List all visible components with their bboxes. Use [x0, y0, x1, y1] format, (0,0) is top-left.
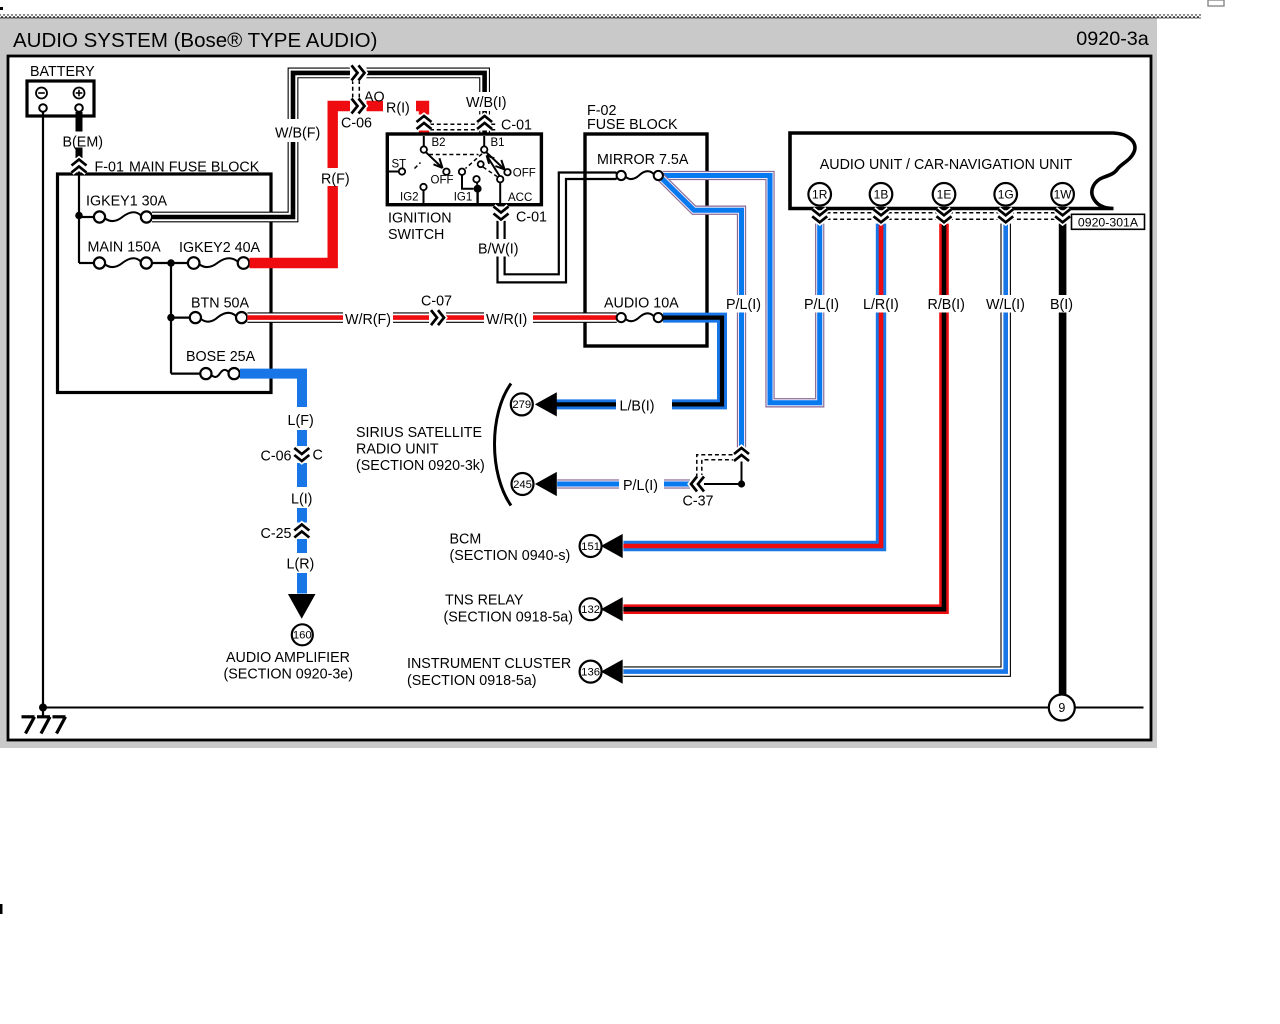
- dashed B1 to IG1: [466, 154, 483, 169]
- wire B from 1W to ground joint 9: [1059, 211, 1067, 695]
- wire P/L #1 MIRROR to 1R: [663, 176, 820, 403]
- svg-text:1W: 1W: [1054, 188, 1073, 202]
- wire W/L from 1G to instrument cluster: [623, 211, 1005, 672]
- audio unit pin circles: [808, 183, 831, 206]
- svg-text:MIRROR 7.5A: MIRROR 7.5A: [597, 152, 689, 168]
- svg-text:(SECTION 0920-3k): (SECTION 0920-3k): [356, 458, 485, 474]
- terminal IG2: [420, 184, 426, 190]
- svg-text:0920-3a: 0920-3a: [1076, 28, 1149, 50]
- svg-text:OFF: OFF: [513, 168, 536, 180]
- pin B1: [483, 136, 485, 146]
- arrow into 245: [535, 472, 557, 496]
- svg-text:BATTERY: BATTERY: [30, 64, 95, 80]
- tiny top-left dot: [0, 7, 3, 10]
- chevron C-37 up: [734, 448, 749, 461]
- arrow into 279: [535, 392, 557, 416]
- svg-text:W/R(F): W/R(F): [345, 312, 391, 328]
- chevron C-07: [431, 310, 444, 325]
- wire vertical to BOSE: [170, 318, 172, 374]
- wire label B(I): [1045, 295, 1080, 313]
- svg-text:(SECTION 0940-s): (SECTION 0940-s): [450, 548, 571, 564]
- svg-text:INSTRUMENT CLUSTER: INSTRUMENT CLUSTER: [407, 656, 571, 672]
- left-edge black tick: [0, 904, 3, 914]
- wire P/L #2 MIRROR to C-37: [661, 177, 742, 448]
- ground bus line: [43, 707, 1049, 709]
- sirius bracket: [495, 384, 512, 506]
- svg-text:W/R(I): W/R(I): [486, 312, 527, 328]
- node IG1: [474, 185, 482, 193]
- F-01 main fuse block box: [58, 174, 272, 393]
- node BTN: [167, 314, 175, 322]
- chevron C-06 on W/B: [352, 65, 365, 80]
- svg-text:1G: 1G: [998, 188, 1014, 202]
- ground symbol: [22, 717, 66, 734]
- svg-text:ACC: ACC: [508, 192, 532, 204]
- contact OFF right: [504, 169, 510, 175]
- audio unit / car-navigation unit box: [790, 133, 1135, 209]
- arrow into 132: [601, 597, 623, 621]
- wire label L(I): [286, 487, 319, 508]
- connector dashes audio unit 0920-301A: [820, 212, 1071, 214]
- dashed link B2-B1: [429, 154, 479, 156]
- svg-text:C-37: C-37: [683, 494, 714, 510]
- wire F-01 internal vertical: [78, 216, 80, 264]
- svg-text:BTN 50A: BTN 50A: [191, 296, 249, 312]
- svg-text:BCM: BCM: [450, 532, 482, 548]
- svg-text:IG2: IG2: [400, 192, 419, 204]
- ground node: [39, 704, 47, 712]
- wire label W/R(F): [343, 310, 393, 327]
- svg-text:C-06: C-06: [341, 116, 372, 132]
- wire label L(F): [283, 407, 320, 430]
- svg-text:IGKEY2 40A: IGKEY2 40A: [179, 240, 261, 256]
- ignition switch box: [387, 134, 541, 205]
- node at IGKEY1: [75, 212, 83, 220]
- audio amplifier arrow: [288, 594, 316, 619]
- svg-text:P/L(I): P/L(I): [623, 478, 658, 494]
- wire B/W(I) from ignition ACC to F-02 mirror fuse: [498, 177, 619, 283]
- F-02 fuse block box: [585, 134, 707, 346]
- wire label W/L(I): [980, 295, 1030, 313]
- lever ACC to B1 with arrow: [487, 155, 500, 176]
- svg-text:C-25: C-25: [261, 526, 292, 542]
- svg-text:9: 9: [1058, 701, 1065, 715]
- svg-text:B(I): B(I): [1050, 297, 1073, 313]
- svg-text:0920-301A: 0920-301A: [1078, 216, 1139, 230]
- svg-text:C-01: C-01: [501, 118, 532, 134]
- wire into F-01: [78, 171, 80, 216]
- svg-text:P/L(I): P/L(I): [726, 297, 761, 313]
- contact OFF left: [443, 169, 449, 175]
- svg-text:AO: AO: [364, 90, 385, 106]
- svg-text:(SECTION 0920-3e): (SECTION 0920-3e): [224, 667, 354, 683]
- svg-text:L(I): L(I): [291, 492, 312, 508]
- lever B1 to OFF right: [486, 152, 504, 169]
- svg-text:MAIN FUSE BLOCK: MAIN FUSE BLOCK: [129, 160, 260, 176]
- svg-text:160: 160: [293, 630, 312, 642]
- chevron C-25 on L: [294, 525, 309, 538]
- svg-text:132: 132: [581, 604, 600, 616]
- wire L from BOSE down to audio amplifier: [240, 374, 302, 594]
- svg-text:151: 151: [581, 541, 600, 553]
- svg-text:BOSE 25A: BOSE 25A: [186, 349, 256, 365]
- svg-text:279: 279: [512, 399, 531, 411]
- svg-text:B1: B1: [491, 137, 505, 149]
- svg-text:AUDIO 10A: AUDIO 10A: [604, 296, 679, 312]
- svg-text:OFF: OFF: [431, 175, 454, 187]
- wire L/R from 1B to BCM: [623, 211, 881, 546]
- wire label P/L(I) at 245: [619, 476, 664, 493]
- top zigzag rule: [0, 15, 1201, 19]
- arrow into 136: [601, 660, 623, 684]
- main diagram frame: [8, 56, 1151, 740]
- svg-text:TNS RELAY: TNS RELAY: [445, 593, 524, 609]
- gray sheet: [0, 17, 1157, 748]
- svg-text:AUDIO SYSTEM (Bose® TYPE AUDIO: AUDIO SYSTEM (Bose® TYPE AUDIO): [13, 29, 377, 52]
- wire label W/R(I): [484, 310, 533, 327]
- node MAIN/IGKEY2: [167, 259, 175, 267]
- chevron C-37 left: [691, 477, 704, 492]
- svg-text:ST: ST: [392, 159, 407, 171]
- svg-text:1B: 1B: [874, 188, 889, 202]
- wire label L/R(I): [855, 295, 906, 313]
- arrow into 151: [601, 534, 623, 558]
- svg-text:IGKEY1 30A: IGKEY1 30A: [86, 194, 168, 210]
- connector label 0920-301A: [1072, 214, 1145, 229]
- wire label R/B(I): [916, 295, 966, 313]
- svg-text:B/W(I): B/W(I): [478, 242, 519, 258]
- battery positive thick wire B(EM): [76, 112, 83, 132]
- pin B2: [423, 136, 425, 146]
- wire label R(F): [319, 168, 353, 186]
- svg-text:AUDIO UNIT / CAR-NAVIGATION UN: AUDIO UNIT / CAR-NAVIGATION UNIT: [820, 157, 1073, 173]
- svg-text:C: C: [313, 448, 323, 464]
- svg-text:AUDIO AMPLIFIER: AUDIO AMPLIFIER: [226, 650, 350, 666]
- connector 245: [512, 473, 534, 495]
- svg-text:R(I): R(I): [386, 101, 410, 117]
- svg-text:R(F): R(F): [321, 172, 350, 188]
- C-37 link lines: [704, 483, 738, 485]
- svg-text:IG1: IG1: [454, 192, 473, 204]
- contact above IG1 node: [473, 176, 479, 182]
- svg-text:W/B(F): W/B(F): [275, 126, 320, 142]
- chevron B(EM): [72, 160, 87, 173]
- svg-text:F-01: F-01: [95, 160, 124, 176]
- svg-text:(SECTION 0918-5a): (SECTION 0918-5a): [444, 610, 574, 626]
- switch lever B2 to OFF: [426, 152, 443, 168]
- svg-text:L/B(I): L/B(I): [620, 399, 655, 415]
- chevron C-01 on W/B: [477, 116, 492, 129]
- wire R from IGKEY2 up and over to ignition switch B2: [250, 106, 425, 263]
- svg-text:245: 245: [513, 479, 532, 491]
- wire vertical to BTN: [170, 263, 172, 318]
- svg-text:W/B(I): W/B(I): [466, 95, 507, 111]
- terminal ACC: [497, 176, 503, 182]
- connector 279: [511, 393, 533, 415]
- terminal ST: [389, 171, 399, 173]
- svg-text:MAIN 150A: MAIN 150A: [88, 240, 162, 256]
- connector dashes C-01: [430, 123, 497, 125]
- connector 160: [292, 624, 313, 645]
- svg-text:1R: 1R: [812, 188, 828, 202]
- svg-text:(SECTION 0918-5a): (SECTION 0918-5a): [407, 673, 537, 689]
- svg-text:L(R): L(R): [287, 557, 315, 573]
- wire label B/W(I): [477, 239, 521, 257]
- contact IG1 top: [459, 169, 465, 175]
- node C-37: [738, 480, 745, 487]
- wire label P/L(I) mid column: [724, 295, 765, 313]
- svg-text:136: 136: [581, 666, 600, 678]
- chevron gap rects: [72, 158, 86, 172]
- chevron C-06 on L: [294, 448, 309, 461]
- svg-text:SIRIUS SATELLITE: SIRIUS SATELLITE: [356, 425, 482, 441]
- wire label W/B(F): [270, 119, 322, 142]
- tiny top-right window mark: [1208, 0, 1224, 6]
- wire R/B from 1E to TNS relay: [623, 211, 944, 609]
- wire label L/B(I): [616, 396, 672, 413]
- svg-text:P/L(I): P/L(I): [804, 297, 839, 313]
- chevron C-01 on R: [417, 116, 432, 129]
- svg-text:L/R(I): L/R(I): [863, 297, 899, 313]
- svg-text:C-06: C-06: [261, 449, 292, 465]
- wire L/B from AUDIO fuse to SIRIUS 279: [557, 318, 723, 405]
- chevrons at audio unit pins: [812, 209, 827, 222]
- wire W/B(F) from IGKEY1 up and over to ignition switch: [152, 73, 485, 217]
- wire W/R from BTN to F-02: [247, 312, 616, 323]
- connector dashes C-06: [352, 80, 354, 99]
- svg-text:C-07: C-07: [421, 294, 452, 310]
- svg-text:RADIO UNIT: RADIO UNIT: [356, 442, 439, 458]
- svg-text:FUSE BLOCK: FUSE BLOCK: [587, 117, 678, 133]
- svg-text:W/L(I): W/L(I): [986, 297, 1025, 313]
- svg-text:IGNITION: IGNITION: [388, 211, 452, 227]
- chevron C-06 on R: [352, 99, 365, 114]
- wire label P/L(I) at 1R: [802, 295, 847, 313]
- svg-text:L(F): L(F): [288, 413, 314, 429]
- connector 9: [1049, 695, 1075, 721]
- svg-text:C-01: C-01: [516, 210, 547, 226]
- svg-text:1E: 1E: [937, 188, 952, 202]
- contact mid: [478, 161, 484, 167]
- svg-text:R/B(I): R/B(I): [928, 297, 965, 313]
- svg-text:B(EM): B(EM): [63, 135, 104, 151]
- svg-text:SWITCH: SWITCH: [388, 227, 444, 243]
- wire label L(R): [283, 553, 320, 573]
- wire label W/B(I): [464, 92, 511, 111]
- svg-text:B2: B2: [432, 137, 446, 149]
- chevron C-01 below ignition: [494, 207, 509, 220]
- battery negative wire down to ground: [42, 112, 44, 717]
- wire label R(I): [383, 96, 416, 115]
- wire P/L from 245 to C-37: [557, 479, 694, 488]
